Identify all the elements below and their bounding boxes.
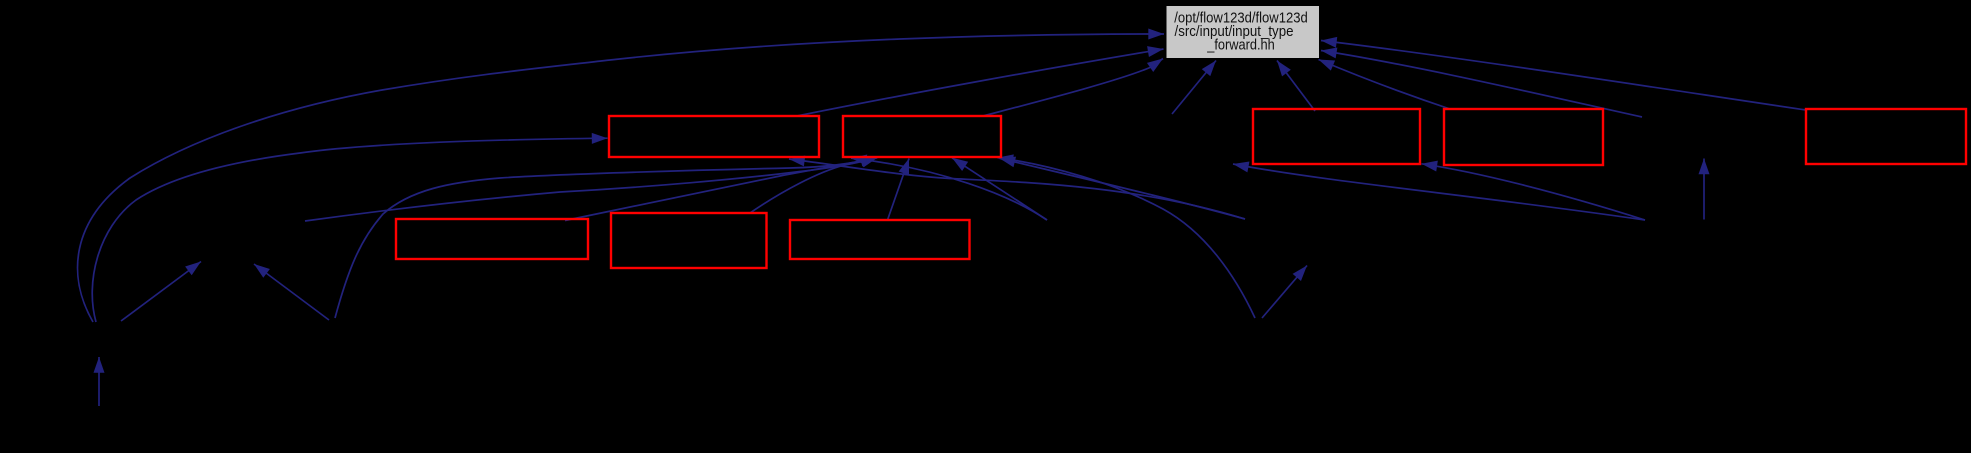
wire: edge box B to central header	[983, 59, 1163, 117]
svg-text:_forward.hh: _forward.hh	[1206, 38, 1274, 54]
wire: edge r2d node to r1inv2 node	[1703, 159, 1705, 220]
wire: edge L1 node to central header (big left arc)	[78, 34, 1164, 322]
wire: edge L2 node to box B bottom-left (long rising curve)	[335, 158, 877, 319]
node: box C (red, row 1 right of center)	[1253, 109, 1420, 164]
wire: edge box C to central header	[1277, 61, 1315, 112]
wire: edge box H to box B bottom	[888, 159, 910, 221]
node: box G (red, row 2 middle)	[611, 213, 767, 268]
wire: edge box F to box B bottom-left	[565, 158, 877, 221]
wire: edge r1inv node to central header	[1172, 61, 1216, 115]
wire: edge box G to box B bottom-left	[750, 158, 878, 213]
wire: edge r2c node to box B bottom-right corner	[1000, 158, 1246, 219]
wire: edge L1 node to r2a node	[121, 262, 201, 322]
wire: edge r2b node second to box A bottom edge	[851, 158, 1047, 220]
node: box E (red, row 1 far right)	[1806, 109, 1966, 164]
wire: edge M1 node to box B bottom-right corner (big right curve)	[998, 158, 1256, 318]
node: box H (red, row 2)	[790, 220, 970, 259]
wire: edge box D to central header	[1319, 60, 1451, 110]
node: box B (red, row 1, hub)	[843, 116, 1001, 157]
wire: edge r1inv2 node to central header	[1321, 51, 1642, 118]
wire: edge r2a node to box B bottom-left	[305, 158, 877, 221]
node: box A (red, row 1 left)	[609, 116, 819, 157]
node: central header /opt/flow123d/flow123d/src/input/input_type_forward.hh	[1166, 6, 1320, 59]
node: box D (red, row 1)	[1444, 109, 1603, 165]
wire: edge M1 node to r2c node	[1262, 266, 1307, 319]
wire: edge box A to central header	[797, 49, 1164, 116]
wire: edge r2b node to box B bottom	[952, 158, 1047, 220]
wire: edge L1 node to box A (second left arc)	[92, 138, 607, 322]
wire: edge r2c node to box A bottom	[789, 159, 1245, 219]
wire: edge box E to central header	[1321, 41, 1806, 111]
wire: edge row4 node to L1 node	[98, 357, 100, 406]
wire: edge r2d node to box C right edge	[1422, 164, 1646, 220]
node: box F (red, row 2 left)	[396, 219, 588, 259]
wire: edge L2 node to r2a node	[254, 264, 329, 320]
wire: edge r2d node to r1inv node	[1233, 164, 1645, 220]
